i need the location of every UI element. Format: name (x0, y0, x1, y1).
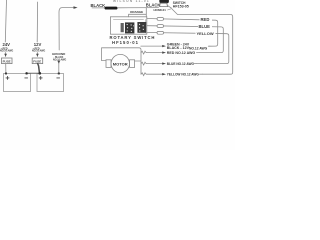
wire motor loop top (102, 48, 141, 74)
wire yellow label tail (200, 73, 203, 75)
wire break blue label (141, 62, 162, 65)
connector lug red (157, 18, 164, 21)
wire green/black label tail (208, 45, 210, 47)
wire fuse F2 to battery B2 (38, 64, 40, 74)
label ORANGE (130, 10, 143, 14)
svg-text:RED: RED (201, 17, 210, 22)
arrow 24V down (5, 53, 7, 57)
svg-text:GREEN - 24V: GREEN - 24V (167, 42, 190, 46)
arrow 12V down (36, 53, 38, 57)
label BLACK left (91, 3, 106, 8)
label SWITCH HF153-05 (173, 1, 189, 9)
splice connector (105, 7, 118, 10)
wire break yellow label (141, 73, 162, 76)
wire ground to battery B2 minus (58, 64, 60, 74)
svg-text:HOND-01: HOND-01 (154, 8, 167, 12)
wire break red label (141, 51, 162, 54)
wire black run right segment (118, 7, 159, 9)
svg-text:24V: 24V (3, 42, 11, 47)
wire series jumper B1 minus to B2 plus (27, 72, 40, 74)
wire blue label tail (194, 63, 197, 65)
svg-text:12V: 12V (34, 42, 42, 47)
label ROTARY SWITCH HF150-01 (110, 35, 156, 45)
label RED NO.12 AWG (167, 51, 196, 55)
svg-text:HF150-01: HF150-01 (112, 40, 139, 45)
wire blue from rotary switch (147, 26, 223, 53)
svg-text:BLUE NO.12 AWG: BLUE NO.12 AWG (167, 62, 195, 66)
svg-text:WILSON 11-01: WILSON 11-01 (113, 0, 150, 3)
svg-text:SWITCH: SWITCH (173, 1, 186, 5)
connector lug blue (157, 25, 164, 28)
wire HOND-01 pointer (168, 9, 172, 10)
wire red label tail (197, 52, 200, 54)
wire yellow from rotary switch (147, 33, 229, 64)
fuse F1 box (2, 58, 13, 64)
wire 24V feed vertical (5, 0, 6, 42)
label RED (200, 17, 213, 22)
node GROUND label (52, 52, 66, 62)
wire momentary switch feed along top right (172, 9, 233, 74)
rotary switch pin block A (121, 22, 147, 33)
arrow GROUND down (58, 61, 60, 64)
label BLACK right (146, 2, 161, 7)
svg-text:FUSE: FUSE (33, 60, 41, 64)
rotary switch U1 body (110, 17, 146, 34)
wire orange (129, 8, 147, 17)
label BLUE (198, 24, 212, 29)
label BLUE NO.12 AWG (167, 62, 195, 66)
wire ground run with arrow to BLACK (59, 8, 74, 50)
wire 12V feed vertical (36, 2, 38, 42)
svg-text:BLACK: BLACK (146, 2, 161, 7)
motor bracket left (106, 60, 111, 68)
svg-text:MOTOR: MOTOR (113, 61, 128, 66)
motor bracket right (130, 60, 135, 68)
svg-text:ROTARY SWITCH: ROTARY SWITCH (110, 35, 156, 40)
label YELLOW NO.12 AWG (167, 73, 200, 77)
top cropped text (113, 0, 150, 3)
svg-text:FUSE: FUSE (3, 60, 11, 64)
svg-text:GROUND: GROUND (52, 52, 66, 56)
connector lug yellow (157, 31, 164, 34)
svg-text:NO.10 AWG: NO.10 AWG (0, 50, 13, 53)
svg-text:ORANGE: ORANGE (130, 10, 143, 14)
label HOND-01 (154, 8, 167, 12)
wire fuse F1 to battery B1 (5, 64, 7, 74)
label YELLOW (196, 30, 216, 35)
label line green/black pair (141, 45, 162, 47)
motor M1 circle (111, 54, 129, 72)
wire red from rotary switch (147, 19, 218, 47)
wire black run left segment (92, 7, 105, 9)
svg-text:BLUE: BLUE (199, 24, 211, 29)
svg-text:BLACK: BLACK (91, 3, 106, 8)
svg-text:YELLOW NO.12 AWG: YELLOW NO.12 AWG (167, 73, 200, 77)
wire motor right bracket to cable (135, 60, 141, 62)
svg-text:NO.12 AWG: NO.12 AWG (189, 47, 208, 51)
svg-text:NO.10 AWG: NO.10 AWG (32, 50, 45, 53)
svg-text:YELLOW: YELLOW (197, 31, 214, 36)
svg-text:HF153-05: HF153-05 (173, 5, 189, 9)
battery B1 (4, 74, 31, 92)
svg-text:RED NO.12 AWG: RED NO.12 AWG (167, 51, 196, 55)
node 24V label (0, 42, 13, 53)
battery B2 (37, 74, 64, 92)
node 12V label (32, 42, 45, 53)
switch S1 momentary button (159, 0, 169, 3)
wire switch lever (167, 5, 172, 8)
fuse F2 box (32, 58, 43, 64)
svg-text:BLACK - 12V: BLACK - 12V (167, 46, 190, 50)
